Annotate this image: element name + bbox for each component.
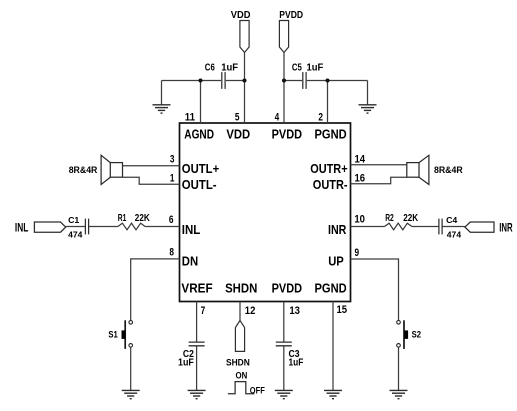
input connector INR — [465, 222, 494, 232]
svg-text:1uF: 1uF — [307, 62, 324, 73]
ground top-right — [359, 105, 377, 113]
svg-text:15: 15 — [337, 304, 348, 316]
svg-text:INL: INL — [15, 221, 28, 235]
svg-text:16: 16 — [355, 172, 366, 184]
svg-text:OUTR-: OUTR- — [313, 178, 348, 192]
svg-text:INR: INR — [499, 221, 513, 235]
wire pin 11 to bus — [200, 81, 202, 124]
wire bus left segment — [162, 80, 222, 82]
svg-text:PVDD: PVDD — [279, 10, 303, 21]
wire pin 8 to S1 — [131, 259, 180, 321]
wire R2 to C4 — [412, 226, 439, 228]
capacitor C6 — [222, 72, 225, 89]
svg-text:1: 1 — [170, 172, 175, 184]
svg-text:2: 2 — [318, 112, 323, 124]
capacitor C3 — [276, 342, 292, 346]
wire C1 to R1 — [89, 226, 118, 228]
svg-text:S1: S1 — [108, 330, 118, 341]
svg-text:C5: C5 — [292, 62, 302, 73]
svg-text:PGND: PGND — [315, 282, 347, 296]
svg-text:PVDD: PVDD — [272, 128, 302, 142]
svg-text:INR: INR — [328, 223, 346, 237]
wire pin 1 to speaker — [123, 177, 180, 184]
power flag VDD — [240, 21, 249, 53]
svg-text:6: 6 — [169, 214, 174, 226]
svg-text:INL: INL — [182, 223, 201, 237]
wire INL connector to C1 — [66, 226, 85, 228]
wire C4 to INR connector — [443, 226, 466, 228]
wire R1 to pin 6 — [145, 226, 179, 228]
IC U1 body — [180, 123, 351, 302]
junction on pin 11 wire — [199, 79, 203, 83]
svg-text:VREF: VREF — [181, 282, 213, 296]
svg-text:C1: C1 — [68, 215, 79, 225]
ground under pin 15 — [324, 390, 342, 398]
resistor R1 — [118, 223, 145, 230]
svg-text:13: 13 — [289, 305, 300, 317]
wire pin 16 to speaker — [351, 177, 407, 184]
wire pin 12 to SHDN connector — [239, 302, 241, 321]
wire C3 to ground — [283, 346, 285, 391]
svg-text:11: 11 — [185, 112, 195, 124]
svg-text:8R&4R: 8R&4R — [69, 165, 98, 175]
svg-text:3: 3 — [170, 153, 175, 165]
wire pin 10 to R2 — [351, 226, 385, 228]
svg-text:1uF: 1uF — [289, 358, 304, 369]
input connector INL — [34, 222, 65, 232]
svg-text:9: 9 — [355, 247, 360, 259]
power flag PVDD — [279, 21, 288, 53]
wire VDD rail to pin 5 — [244, 53, 246, 124]
wire pin 13 to C3 — [283, 302, 285, 342]
svg-text:R1: R1 — [118, 213, 127, 224]
junction on PVDD rail — [282, 79, 286, 83]
svg-text:1uF: 1uF — [178, 358, 194, 369]
svg-text:OUTL+: OUTL+ — [182, 162, 219, 176]
ground under S2 — [390, 390, 408, 398]
svg-text:1uF: 1uF — [221, 62, 238, 73]
wire S1 to ground — [130, 347, 132, 390]
switch S2 bottom contact — [397, 344, 401, 348]
wire left ground drop — [161, 81, 163, 105]
wire pin 2 to bus — [327, 81, 329, 124]
speaker SPK1 box — [110, 163, 122, 178]
svg-text:474: 474 — [447, 230, 462, 240]
switch S2 button — [404, 330, 408, 339]
wire right ground drop — [367, 81, 369, 105]
svg-text:474: 474 — [68, 230, 83, 240]
svg-text:22K: 22K — [135, 213, 151, 224]
resistor R2 — [385, 223, 412, 230]
switch S2 top contact — [397, 321, 401, 325]
svg-text:OUTL-: OUTL- — [182, 178, 217, 192]
svg-text:OFF: OFF — [250, 386, 265, 396]
switch S2 actuator bar — [403, 320, 405, 349]
speaker SPK1 cone — [101, 155, 110, 184]
svg-text:DN: DN — [182, 255, 198, 269]
svg-text:C4: C4 — [446, 215, 457, 225]
wire C6 to VDD rail — [226, 80, 245, 82]
wire pin 9 to S2 — [351, 259, 399, 320]
svg-text:12: 12 — [245, 305, 256, 317]
capacitor C2 — [189, 342, 205, 346]
svg-text:VDD: VDD — [226, 128, 250, 142]
ground top-left — [153, 105, 171, 113]
pulse waveform ON/OFF — [228, 382, 255, 394]
speaker SPK2 box — [407, 163, 419, 178]
junction on VDD rail — [243, 79, 247, 83]
wire C2 to ground — [196, 346, 198, 391]
capacitor C4 — [439, 219, 442, 235]
svg-text:C6: C6 — [205, 62, 215, 73]
svg-text:R2: R2 — [385, 213, 394, 224]
junction on pin 2 wire — [326, 79, 330, 83]
svg-text:VDD: VDD — [231, 10, 251, 21]
svg-text:10: 10 — [354, 213, 365, 225]
ground under C2 — [188, 390, 206, 398]
svg-text:8R&4R: 8R&4R — [434, 165, 463, 175]
svg-text:PGND: PGND — [315, 128, 347, 142]
wire pin 15 to ground — [332, 302, 334, 391]
capacitor C5 — [303, 72, 306, 89]
ground under S1 — [122, 390, 140, 398]
capacitor C1 — [85, 219, 88, 235]
svg-text:SHDN: SHDN — [226, 358, 250, 368]
svg-text:7: 7 — [201, 305, 206, 317]
speaker SPK2 cone — [419, 155, 429, 184]
svg-text:S2: S2 — [412, 330, 421, 341]
switch S1 top contact — [129, 321, 133, 325]
svg-text:ON: ON — [236, 371, 248, 381]
wire PVDD rail to pin 4 — [283, 53, 285, 124]
wire S2 to ground — [398, 347, 400, 390]
switch S1 actuator bar — [124, 320, 126, 349]
svg-text:22K: 22K — [403, 213, 419, 224]
svg-text:PVDD: PVDD — [272, 282, 302, 296]
svg-text:AGND: AGND — [184, 128, 214, 142]
wire PVDD rail to C5 — [284, 80, 302, 82]
ground under C3 — [275, 390, 293, 398]
wire pin 14 to speaker — [351, 164, 407, 166]
wire pin 3 to speaker — [123, 165, 180, 167]
svg-text:8: 8 — [169, 247, 174, 259]
svg-text:OUTR+: OUTR+ — [310, 162, 347, 176]
svg-text:5: 5 — [235, 112, 240, 124]
switch S1 bottom contact — [129, 344, 133, 348]
svg-text:SHDN: SHDN — [225, 282, 257, 296]
svg-text:14: 14 — [355, 153, 366, 165]
svg-text:4: 4 — [275, 112, 280, 124]
switch S1 button — [122, 330, 126, 339]
svg-text:UP: UP — [328, 255, 344, 269]
wire C5 to right ground — [307, 80, 368, 82]
wire pin 7 to C2 — [196, 302, 198, 342]
signal connector SHDN — [235, 320, 244, 351]
